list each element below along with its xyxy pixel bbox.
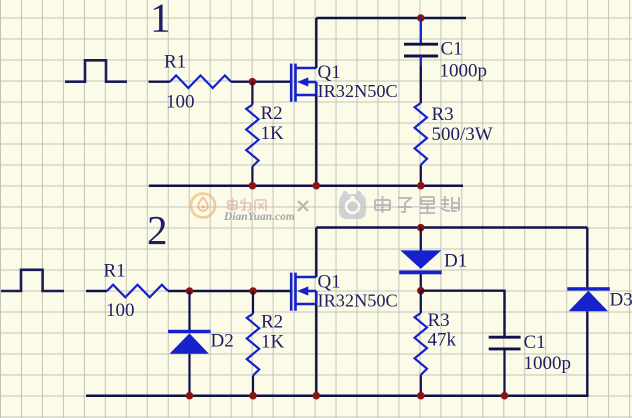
wire R2 to ground rail [251,167,253,186]
node junction D1/R3/C1 [417,287,425,295]
svg-text:1K: 1K [261,332,285,353]
wire source Q1 to ground rail [315,95,317,186]
svg-text:R3: R3 [428,310,450,331]
pulse source input 2 [1,270,64,291]
svg-text:1000p: 1000p [524,353,572,374]
wire ground rail circuit 2 [86,394,589,397]
transistor Q1 circuit 1 (mosfet) [291,64,316,102]
diode D1 [400,250,441,269]
watermark star-ball logo [339,191,366,219]
resistor R2 (1K) circuit 2 [247,314,259,376]
transistor Q1 circuit 2 (mosfet) [291,273,316,311]
wire top rail circuit 2 [316,226,587,229]
node junction top rail C1 [417,14,425,22]
svg-text:R1: R1 [164,52,186,73]
svg-text:R2: R2 [261,103,283,124]
resistor R1 (100) circuit 2 [107,285,168,298]
wire junction to R2 [251,82,253,105]
wire top rail circuit 1 [316,17,466,20]
node junction rail R3 circuit 2 [417,392,425,400]
watermark text dianyuanwang [228,198,266,211]
capacitor C1 (1000p) circuit 1 [404,44,438,56]
wire rail to D1 [420,228,422,252]
wire source Q1 to ground rail circuit 2 [315,304,317,396]
svg-text:1: 1 [150,0,171,41]
wire drain Q1 to top rail circuit 2 [315,228,317,278]
resistor R3 (47k) circuit 2 [415,313,427,375]
node junction rail C1 circuit 2 [501,392,509,400]
wire R1 to gate Q1 [231,80,291,82]
capacitor C1 (1000p) circuit 2 [489,337,521,349]
node junction rail R2 circuit 2 [249,392,257,400]
svg-text:C1: C1 [441,39,463,60]
svg-text:D2: D2 [211,331,234,352]
resistor R2 (1K) circuit 1 [246,105,258,167]
node junction rail D2 [186,392,194,400]
svg-text:47k: 47k [428,330,457,351]
svg-text:D3: D3 [610,290,632,311]
wire junction to R2 circuit 2 [252,291,254,314]
svg-text:1000p: 1000p [440,61,488,82]
wire R3 to ground rail circuit 2 [420,375,422,396]
node junction rail Q1 source [313,182,321,190]
node junction rail Q1 source circuit 2 [313,392,321,400]
svg-text:IR32N50C: IR32N50C [318,81,398,101]
diode D2 [168,330,211,333]
wire top rail to D3 [586,228,588,288]
svg-text:R1: R1 [104,261,126,282]
wire R1 to gate Q1 circuit 2 [168,290,291,292]
wire D2 to ground rail [188,354,190,396]
resistor R1 (100) circuit 1 [170,75,231,88]
node junction R1/R2/gate [249,78,257,86]
watermark dianyuan logo [191,194,215,218]
watermark separator x [298,201,308,211]
svg-text:C1: C1 [524,332,546,353]
wire input to R1 [149,80,171,82]
watermark text dianziqiqiu [375,196,459,214]
wire D3 to ground rail [586,311,588,396]
diode D3 [567,287,610,290]
wire drain Q1 to top rail [315,18,317,68]
svg-text:500/3W: 500/3W [432,124,493,145]
svg-text:2: 2 [147,207,168,253]
svg-text:R2: R2 [261,312,283,333]
svg-text:IR32N50C: IR32N50C [318,291,398,311]
wire C1 to ground rail circuit 2 [503,349,505,396]
svg-text:Q1: Q1 [318,62,341,83]
svg-text:D1: D1 [444,251,467,272]
svg-text:100: 100 [106,300,135,321]
svg-text:100: 100 [166,91,195,112]
wire junction to D2 [188,291,190,330]
wire R2 to ground rail circuit 2 [252,376,254,396]
wire rail to C1 [420,18,422,43]
node junction top rail D1 [417,224,425,232]
wire D1 to junction [420,274,422,291]
wire junction to R3 circuit 2 [420,291,422,313]
node junction rail R3 [417,182,425,190]
node junction D2 [186,287,194,295]
wire R3 to ground rail [420,165,422,186]
wire ground rail circuit 1 [149,184,463,187]
svg-text:1K: 1K [261,123,285,144]
pulse source input 1 [65,60,127,81]
svg-text:R3: R3 [432,104,454,125]
node junction rail R2 [249,182,257,190]
resistor R3 (500/3W) circuit 1 [415,103,427,165]
wire input to R1 circuit 2 [86,290,107,292]
wire junction to C1 branch [421,291,505,337]
svg-text:DianYuan.com: DianYuan.com [223,211,295,223]
node junction R2 circuit 2 [249,287,257,295]
svg-text:Q1: Q1 [318,272,341,293]
wire C1 to R3 [420,56,422,66]
